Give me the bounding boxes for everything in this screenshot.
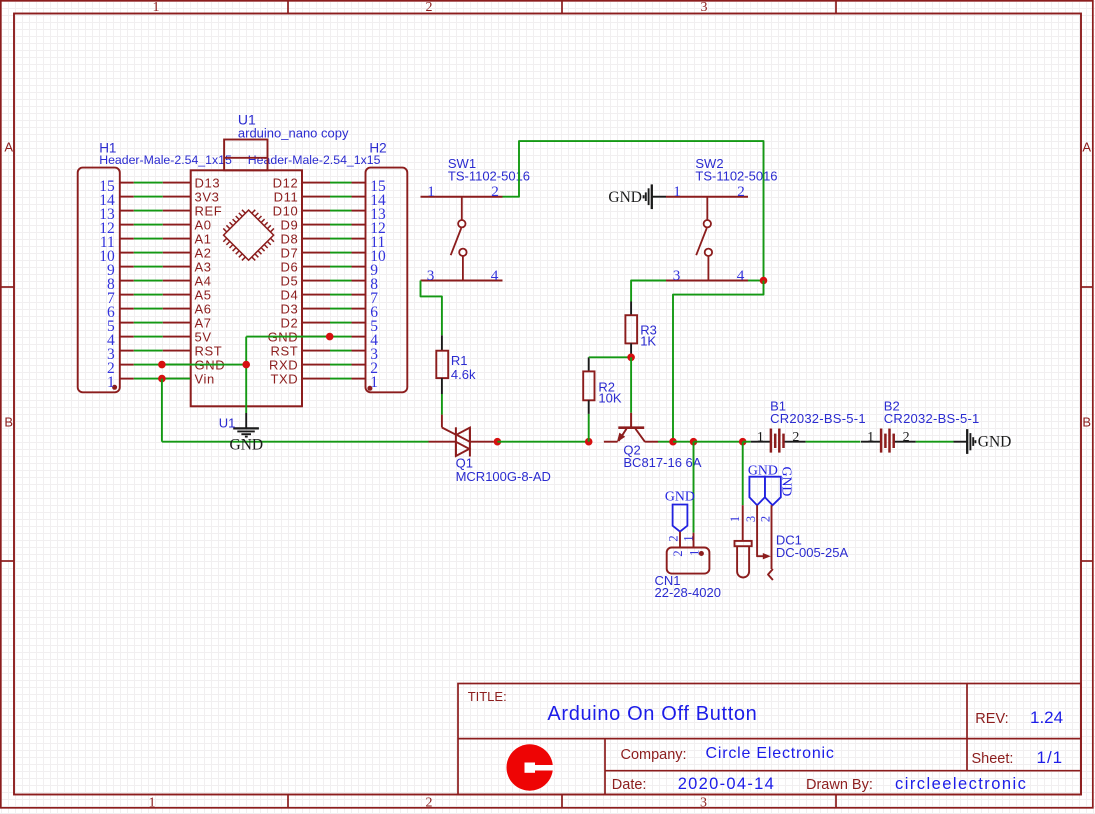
svg-text:Vin: Vin — [195, 371, 215, 386]
svg-text:1/1: 1/1 — [1037, 748, 1064, 767]
mcu U1 top notch — [224, 140, 267, 171]
connector H2 pins — [352, 183, 366, 379]
connector H1 pin1 marker — [112, 385, 117, 390]
svg-text:1: 1 — [757, 430, 764, 445]
svg-text:Drawn By:: Drawn By: — [806, 777, 873, 793]
wire GND row to vertical — [162, 364, 246, 366]
svg-text:1K: 1K — [640, 334, 656, 349]
svg-text:1: 1 — [728, 516, 742, 522]
svg-text:DC-005-25A: DC-005-25A — [776, 545, 849, 560]
switch SW2 contact circle bottom — [705, 249, 712, 256]
svg-text:2: 2 — [737, 183, 745, 200]
wire R2 bottom — [588, 414, 590, 442]
svg-text:A3: A3 — [195, 259, 212, 274]
company logo — [507, 744, 554, 790]
svg-text:D11: D11 — [274, 189, 299, 204]
svg-text:TXD: TXD — [270, 371, 298, 386]
svg-text:D2: D2 — [280, 315, 298, 330]
wire SW2 pin3 to R3 — [631, 281, 666, 302]
switch SW1 bottom stem — [462, 256, 464, 281]
svg-text:1: 1 — [153, 0, 160, 15]
svg-text:D13: D13 — [195, 175, 221, 190]
svg-text:2: 2 — [667, 535, 681, 541]
wire SW2 pin4 stub — [748, 280, 764, 282]
svg-text:RST: RST — [270, 343, 298, 358]
connector H1 pins — [120, 183, 134, 379]
connector H1 pin numbers — [99, 178, 115, 391]
connector CN1 body — [667, 548, 710, 574]
svg-text:1: 1 — [370, 374, 378, 391]
switch SW1 pole stem — [461, 197, 463, 220]
switch SW1 top bar — [421, 196, 503, 198]
svg-text:GND: GND — [748, 462, 778, 477]
svg-text:BC817-16 6A: BC817-16 6A — [623, 455, 701, 470]
svg-text:2020-04-14: 2020-04-14 — [678, 775, 775, 793]
svg-text:D3: D3 — [280, 301, 298, 316]
svg-text:22-28-4020: 22-28-4020 — [655, 585, 722, 600]
wire SW1 pin2 up and across top — [503, 141, 764, 280]
svg-text:A7: A7 — [195, 315, 212, 330]
svg-text:A4: A4 — [195, 273, 212, 288]
wire R2 top to node — [589, 356, 631, 358]
transistor Q2 — [604, 413, 658, 443]
svg-text:D12: D12 — [273, 175, 299, 190]
switch SW2 pole stem — [706, 197, 708, 220]
svg-text:CR2032-BS-5-1: CR2032-BS-5-1 — [884, 411, 980, 426]
ground flag at DC1 pin2 — [765, 477, 781, 506]
resistor R3 — [625, 302, 637, 358]
svg-text:D5: D5 — [280, 273, 298, 288]
svg-text:B: B — [1082, 415, 1091, 430]
svg-text:3: 3 — [701, 0, 708, 15]
mcu U1 right pin names — [268, 175, 299, 386]
svg-text:1: 1 — [149, 795, 156, 810]
mcu U1 chip glyph — [217, 203, 281, 267]
svg-text:GND: GND — [780, 467, 795, 497]
wire GND net inside U1 to H2 pin4 — [246, 336, 351, 338]
ground symbol right of B2 — [954, 429, 976, 454]
junction DC1 branch — [739, 438, 747, 446]
svg-text:3V3: 3V3 — [195, 189, 220, 204]
junction R2 R3 node — [627, 354, 635, 362]
svg-text:circleelectronic: circleelectronic — [895, 775, 1027, 793]
svg-text:2: 2 — [903, 430, 910, 445]
svg-text:2: 2 — [758, 516, 772, 522]
mcu U1 body — [191, 170, 302, 406]
svg-text:GND: GND — [665, 489, 695, 504]
connector CN1 pin2 lead — [679, 532, 681, 548]
ground flag at DC1 pin3 — [749, 477, 765, 506]
connector CN1 pin1 lead — [693, 533, 695, 548]
svg-text:REF: REF — [195, 203, 223, 218]
switch SW2 bottom bar — [666, 280, 748, 282]
wire node to Q2 base — [630, 357, 632, 413]
junction R2 bottom rail — [585, 438, 593, 446]
svg-text:GND: GND — [608, 189, 642, 206]
junction Q1 anode — [494, 438, 502, 446]
wire rail to B1 — [743, 441, 751, 443]
ground flag at CN1 pin2 — [673, 505, 688, 532]
wire SW2 pin4 down to rail — [673, 281, 764, 442]
svg-text:3: 3 — [744, 516, 758, 522]
svg-text:4.6k: 4.6k — [451, 367, 476, 382]
svg-text:1: 1 — [673, 183, 681, 200]
wire DC1 pin1 down — [742, 442, 744, 506]
switch SW1 actuator arm — [451, 228, 462, 255]
svg-text:2: 2 — [426, 0, 433, 15]
wires H1 to U1 — [134, 183, 163, 351]
svg-text:3: 3 — [700, 795, 707, 810]
svg-text:RST: RST — [195, 343, 223, 358]
resistor R1 — [436, 335, 448, 394]
ground symbol at SW2 — [644, 184, 666, 209]
svg-text:A: A — [4, 140, 13, 155]
svg-text:A5: A5 — [195, 287, 212, 302]
svg-text:Circle Electronic: Circle Electronic — [706, 745, 835, 762]
wire rail to DC1 branch — [694, 441, 743, 443]
svg-text:3: 3 — [673, 267, 681, 284]
svg-text:GND: GND — [978, 434, 1012, 451]
svg-text:A0: A0 — [195, 217, 212, 232]
svg-text:1: 1 — [867, 430, 874, 445]
wire Vin rail down — [161, 379, 163, 442]
svg-text:2: 2 — [792, 430, 799, 445]
connector CN1 pin1 marker — [699, 551, 704, 556]
wire Q2 collector to junction — [658, 441, 673, 443]
wire CN1 pin1 down — [693, 442, 695, 533]
svg-text:REV:: REV: — [975, 711, 1008, 727]
svg-text:1.24: 1.24 — [1030, 708, 1063, 727]
svg-text:D4: D4 — [280, 287, 298, 302]
wire B2 to GND — [916, 441, 954, 443]
svg-text:B: B — [4, 415, 13, 430]
dc jack DC1 pin2 spring contact — [768, 569, 773, 580]
svg-text:A: A — [1082, 140, 1091, 155]
dc jack DC1 pin3 arrow — [763, 553, 771, 559]
wire main rail left — [162, 441, 429, 443]
junction SW2 pin4 — [760, 277, 768, 285]
svg-text:3: 3 — [427, 267, 435, 284]
svg-text:D8: D8 — [280, 231, 298, 246]
svg-text:D6: D6 — [280, 259, 298, 274]
wire H1 pin2 GND row — [134, 364, 190, 366]
svg-text:5V: 5V — [195, 329, 212, 344]
mcu U1 right pins — [302, 183, 330, 379]
switch SW2 actuator arm — [696, 228, 707, 255]
wire SW1 pin3 to R1 — [421, 281, 442, 336]
junction GND row left — [158, 361, 166, 369]
svg-text:1: 1 — [427, 183, 435, 200]
svg-text:R1: R1 — [451, 353, 468, 368]
svg-text:4: 4 — [491, 267, 499, 284]
svg-text:10K: 10K — [598, 391, 621, 406]
title block outline — [458, 684, 1081, 795]
connector H2 pin1 marker — [367, 386, 372, 391]
connector H1 body — [78, 168, 120, 393]
svg-text:arduino_nano copy: arduino_nano copy — [238, 126, 349, 141]
dc jack DC1 barrel — [735, 541, 752, 578]
svg-text:A1: A1 — [195, 231, 212, 246]
junction CN1 branch — [690, 438, 698, 446]
svg-text:1: 1 — [682, 535, 696, 541]
svg-text:A2: A2 — [195, 245, 212, 260]
connector H2 pin numbers — [370, 178, 386, 391]
junction Vin row — [158, 375, 166, 383]
svg-text:Sheet:: Sheet: — [972, 751, 1014, 767]
wire GND vertical x246 — [245, 337, 247, 413]
junction GND right row — [326, 333, 334, 341]
wire R1 to Q1 gate — [441, 394, 443, 415]
svg-text:Header-Male-2.54_1x15: Header-Male-2.54_1x15 — [99, 153, 232, 167]
svg-text:4: 4 — [737, 267, 745, 284]
mcu U1 left pins — [163, 183, 191, 379]
svg-text:D10: D10 — [273, 203, 299, 218]
svg-text:CR2032-BS-5-1: CR2032-BS-5-1 — [770, 411, 866, 426]
mcu U1 left pin names — [195, 175, 226, 386]
ground symbol U1 — [233, 413, 259, 437]
wire Q1 to R2 node — [497, 441, 588, 443]
svg-text:A6: A6 — [195, 301, 212, 316]
svg-text:RXD: RXD — [269, 357, 298, 372]
svg-text:MCR100G-8-AD: MCR100G-8-AD — [456, 469, 551, 484]
switch SW1 contact circle top — [458, 220, 465, 227]
switch SW1 contact circle bottom — [459, 249, 466, 256]
wire H1 pin1 Vin row — [134, 378, 190, 380]
wire B1 to B2 — [806, 441, 861, 443]
junction SW2 branch rail — [669, 438, 677, 446]
dc jack DC1 pin1 lead — [742, 505, 744, 541]
battery B2 — [861, 429, 916, 453]
svg-text:D9: D9 — [280, 217, 298, 232]
svg-text:2: 2 — [671, 550, 685, 556]
connector H2 body — [366, 168, 408, 393]
svg-text:Arduino On Off Button: Arduino On Off Button — [547, 703, 757, 725]
svg-text:TS-1102-5016: TS-1102-5016 — [695, 168, 777, 183]
battery B1 — [751, 429, 806, 453]
switch SW2 top bar — [666, 196, 748, 198]
junction GND vertical mid — [242, 361, 250, 369]
switch SW2 bottom stem — [707, 256, 709, 281]
svg-text:TITLE:: TITLE: — [468, 689, 507, 704]
svg-text:Company:: Company: — [621, 747, 687, 763]
dc jack DC1 pin2 lead — [771, 505, 773, 569]
wires U1 to H2 — [330, 183, 352, 379]
switch SW1 bottom bar — [421, 280, 503, 282]
wire rail to CN1 branch — [673, 441, 694, 443]
svg-text:TS-1102-5016: TS-1102-5016 — [448, 168, 530, 183]
svg-text:GND: GND — [230, 436, 264, 453]
resistor R2 — [583, 357, 594, 414]
svg-text:1: 1 — [107, 374, 115, 391]
svg-text:Date:: Date: — [612, 777, 647, 793]
svg-text:2: 2 — [491, 183, 499, 200]
thyristor Q1 — [429, 415, 494, 457]
dc jack DC1 pin3 lead — [757, 505, 763, 556]
switch SW2 contact circle top — [704, 220, 711, 227]
svg-text:U1: U1 — [219, 416, 236, 431]
svg-text:D7: D7 — [280, 245, 298, 260]
svg-text:2: 2 — [426, 795, 433, 810]
